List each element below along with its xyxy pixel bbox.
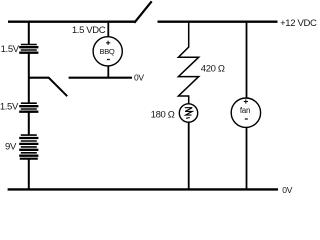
fan M1 circle [231, 98, 260, 127]
wire: battery column between B2 and B3 [28, 112, 30, 135]
wire: 0V return line (buzzer) [69, 77, 132, 79]
wire: top rail right segment [158, 21, 278, 23]
svg-text:1.5 VDC: 1.5 VDC [72, 25, 106, 36]
switch SW2 pole wire [29, 77, 49, 79]
fan - polarity mark [245, 118, 248, 120]
wire: buzzer top lead [107, 22, 109, 37]
svg-text:1.5V: 1.5V [1, 44, 20, 55]
lamp L1 filament zigzag [185, 108, 193, 119]
svg-text:180 Ω: 180 Ω [151, 109, 175, 120]
switch SW1 blade (open) [135, 2, 151, 22]
battery B2 1.5V [19, 103, 38, 112]
wire: battery column mid segment [28, 53, 30, 103]
svg-text:1.5V: 1.5V [0, 102, 19, 113]
wire: fan bottom lead [246, 128, 248, 190]
fan + polarity mark [244, 99, 248, 103]
wire: buzzer bottom lead [107, 66, 109, 78]
wire: bottom 0V rail [8, 188, 278, 190]
svg-text:0V: 0V [134, 73, 144, 83]
wire: battery column bottom lead [28, 159, 30, 190]
battery B3 9V [19, 135, 38, 159]
buzzer + polarity mark [106, 41, 110, 45]
wire: battery column top lead [28, 22, 30, 44]
wire: lamp bottom lead [188, 122, 190, 189]
buzzer - polarity mark [107, 59, 110, 61]
svg-text:0V: 0V [282, 185, 292, 194]
wire: fan top lead [246, 22, 248, 98]
switch SW2 blade (open) [49, 78, 67, 96]
resistor R1 420 ohm (zigzag) [178, 22, 198, 104]
lamp L1 circle [179, 104, 197, 122]
svg-text:9V: 9V [5, 141, 17, 152]
svg-text:BBQ: BBQ [100, 47, 115, 56]
buzzer BBQ circle [93, 37, 122, 66]
svg-text:420 Ω: 420 Ω [201, 63, 225, 74]
battery B1 1.5V [19, 45, 38, 53]
svg-text:+12 VDC: +12 VDC [280, 18, 317, 29]
wire: top rail left segment [8, 21, 135, 23]
svg-text:fan: fan [240, 106, 250, 115]
